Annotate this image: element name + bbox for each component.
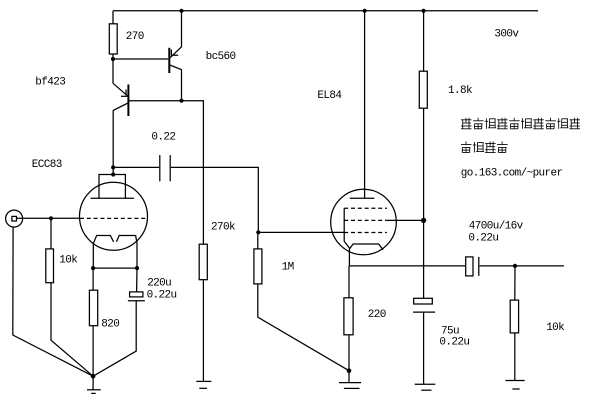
- capacitor C3 right plate: [478, 257, 480, 276]
- wire: 1M top lead: [257, 232, 259, 249]
- svg-text:bf423: bf423: [35, 77, 65, 89]
- transistor Q1 bf423 collector: [113, 103, 128, 175]
- ground (270k): [196, 381, 211, 388]
- ground (10k output): [505, 380, 524, 382]
- junction dot rail / EL84 anode: [363, 9, 367, 13]
- tube V2 suppressor tie to cathode: [344, 208, 349, 248]
- svg-text:270k: 270k: [211, 221, 236, 233]
- svg-text:220u: 220u: [147, 278, 171, 290]
- ground (C4): [415, 383, 436, 385]
- svg-text:4700u/16v: 4700u/16v: [469, 221, 524, 233]
- label title (Chinese) 胆石混装的耳机放大器: [461, 118, 580, 129]
- ground (EL84 cathode): [347, 368, 352, 373]
- wire: EL84 cathode output line: [349, 265, 465, 267]
- svg-text:go.163.com/~purer: go.163.com/~purer: [461, 168, 563, 180]
- wire: R1 bottom to node A: [112, 54, 114, 83]
- svg-text:10k: 10k: [59, 254, 78, 266]
- wire: 820 leads: [92, 268, 94, 290]
- tube V2 g3 (dashed): [344, 207, 387, 209]
- resistor 270k (R2): [199, 244, 207, 280]
- wire: C1 right lead to grid node: [171, 167, 258, 232]
- wire: Q1 base / Q2 collector node line to 270k: [129, 101, 203, 245]
- wire: cathode junction line: [93, 267, 137, 269]
- junction dot rail / 1.8k: [422, 9, 426, 13]
- tube V2 plate line: [350, 197, 375, 199]
- svg-text:EL84: EL84: [317, 90, 342, 102]
- wire: g2 extension to 1.8k line: [387, 219, 424, 221]
- capacitor C2 bottom plate: [128, 300, 145, 302]
- junction dot anode top: [111, 172, 115, 176]
- svg-text:75u: 75u: [441, 325, 459, 337]
- label subtitle (Chinese) 飘韵音响: [461, 142, 508, 153]
- junction dot 10k top: [49, 216, 53, 220]
- junction dot g2 / 1.8k: [421, 218, 426, 223]
- wire: jack shell to ground: [13, 227, 93, 376]
- wire: 10k bottom to ground: [514, 333, 516, 380]
- resistor 1.8k (R6): [419, 71, 427, 108]
- tube V1 cathode: [93, 236, 113, 269]
- wire: 220 leads: [348, 266, 350, 298]
- tube V2 EL84 envelope: [331, 189, 397, 255]
- capacitor C1 0.22 coupling plates: [159, 155, 161, 181]
- resistor 820 (R4): [89, 290, 97, 326]
- svg-text:0.22u: 0.22u: [468, 233, 498, 245]
- tube V1 ECC83 envelope: [80, 182, 148, 250]
- resistor 270 (R1): [109, 24, 117, 54]
- wire: output node to 10k: [514, 266, 516, 300]
- wire: 1.8k bottom through g2 node to C4: [423, 108, 425, 298]
- tube V1 anode staple: [99, 175, 125, 199]
- svg-text:0.22u: 0.22u: [147, 290, 177, 302]
- tube V1 grid (dashed): [80, 217, 147, 219]
- junction dot cathode left: [91, 266, 95, 270]
- wire: 10k bottom to ground: [51, 283, 93, 377]
- svg-text:ECC83: ECC83: [32, 159, 62, 171]
- svg-text:0.22u: 0.22u: [439, 337, 469, 349]
- svg-text:220: 220: [368, 309, 386, 321]
- wire: 270k bottom to ground: [202, 280, 204, 381]
- wire: 10k top lead: [50, 218, 52, 249]
- svg-text:bc560: bc560: [206, 51, 236, 63]
- input jack J1: [6, 210, 23, 227]
- wire: C2 leads: [136, 268, 138, 292]
- transistor Q1 bf423 emitter with arrow: [113, 83, 128, 96]
- tube V2 g1 (dashed): [344, 232, 387, 234]
- node A junction dot (270 / bc560 base / bf423 emitter): [111, 57, 115, 61]
- resistor 1M (R5): [254, 249, 262, 284]
- transistor Q2 bc560 base bar: [168, 48, 170, 73]
- wire: grid node to EL84 g1: [258, 231, 344, 233]
- transistor Q1 bf423 base bar: [127, 85, 129, 117]
- wire: rail to 1.8k: [423, 11, 425, 71]
- resistor 10k input (R3): [46, 249, 54, 283]
- junction dot output node: [513, 264, 517, 268]
- junction dot grid node (C1 / 1M / EL84 g1): [256, 230, 260, 234]
- svg-text:300v: 300v: [494, 29, 519, 41]
- junction dot rail / Q2 emitter: [179, 9, 183, 13]
- svg-text:820: 820: [101, 318, 119, 330]
- wire: C4 bottom to ground: [423, 312, 425, 384]
- capacitor C3 4700u/16v + 0.22u left plate: [466, 257, 473, 276]
- svg-text:1M: 1M: [282, 261, 294, 273]
- wire: +300V top rail: [113, 10, 538, 12]
- wire: C3 right plate to output node: [480, 265, 564, 267]
- tube V2 cathode: [349, 244, 383, 266]
- transistor Q2 bc560 collector: [170, 65, 182, 101]
- junction dot cathode right: [135, 266, 139, 270]
- junction dot coupling-cap tap on anode line: [111, 165, 115, 169]
- wire: C1 left lead: [113, 166, 159, 168]
- junction dot Q2 collector / base line: [179, 99, 183, 103]
- tube V1 plate line: [91, 197, 135, 199]
- wire: rail corner down to R 270 top: [112, 11, 114, 24]
- ground (main, ECC83 cathode): [91, 374, 96, 379]
- transistor Q2 bc560 emitter with arrow: [170, 11, 182, 58]
- wire: jack to V1 grid: [17, 217, 80, 219]
- capacitor C2 220u / 0.22u top plate: [130, 292, 143, 297]
- resistor 10k output (R8): [510, 300, 518, 333]
- svg-text:1.8k: 1.8k: [448, 85, 473, 97]
- tube V2 g2 (dashed): [344, 219, 387, 221]
- capacitor C4 75u / 0.22u top plate: [414, 298, 433, 304]
- capacitor C4 bottom plate: [413, 311, 435, 313]
- wire: 1M bottom to EL84 ground: [258, 284, 349, 371]
- svg-text:10k: 10k: [546, 322, 565, 334]
- svg-text:270: 270: [126, 31, 144, 43]
- resistor 220 (R7): [344, 298, 353, 335]
- svg-text:0.22: 0.22: [151, 132, 175, 144]
- wire: EL84 anode lead from rail: [364, 11, 366, 199]
- wire: bc560 base lead: [113, 58, 168, 60]
